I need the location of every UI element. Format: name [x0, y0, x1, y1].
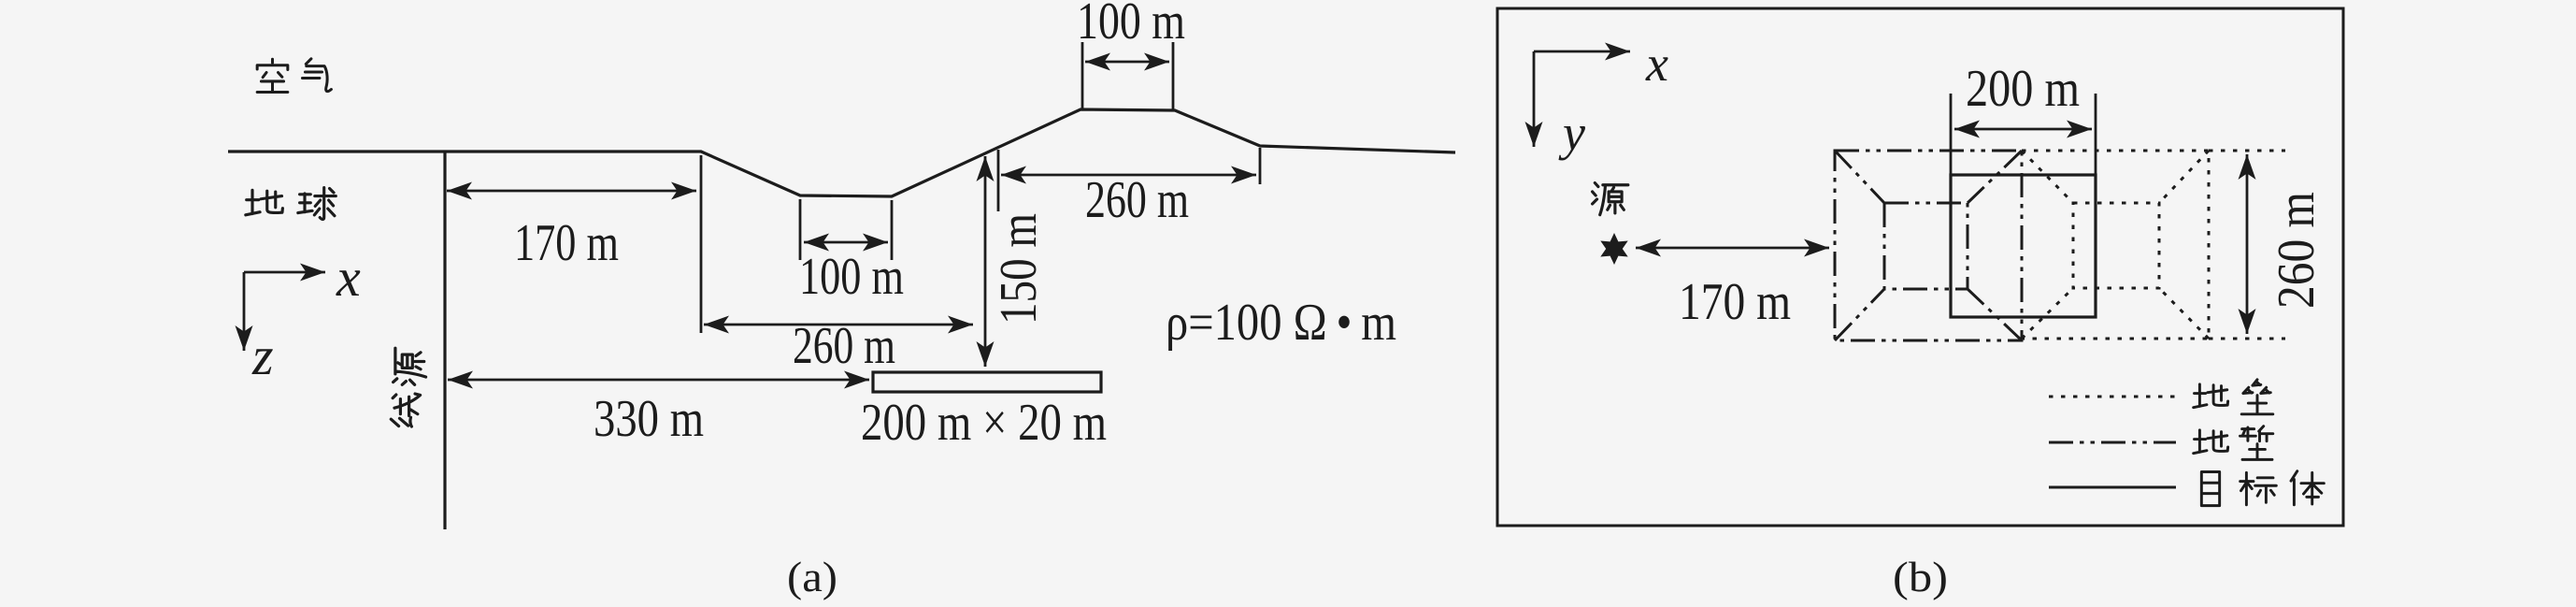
svg-text:x: x	[336, 247, 361, 308]
svg-text:(a): (a)	[787, 553, 837, 600]
svg-text:200 m: 200 m	[1966, 60, 2080, 118]
svg-text:330 m: 330 m	[594, 390, 704, 448]
svg-text:100 m: 100 m	[1077, 0, 1185, 51]
svg-text:z: z	[251, 325, 274, 386]
svg-text:170 m: 170 m	[514, 214, 619, 272]
svg-text:100 m: 100 m	[799, 248, 904, 306]
svg-text:ρ=100 Ω • m: ρ=100 Ω • m	[1166, 294, 1396, 352]
svg-text:260 m: 260 m	[793, 317, 895, 375]
svg-text:x: x	[1645, 36, 1668, 92]
svg-text:260 m: 260 m	[1085, 171, 1189, 229]
svg-text:150 m: 150 m	[990, 213, 1048, 325]
svg-text:(b): (b)	[1893, 553, 1948, 600]
svg-text:200 m × 20 m: 200 m × 20 m	[861, 394, 1107, 452]
svg-text:170 m: 170 m	[1679, 273, 1791, 331]
svg-text:y: y	[1558, 105, 1585, 161]
svg-text:260 m: 260 m	[2268, 192, 2326, 309]
